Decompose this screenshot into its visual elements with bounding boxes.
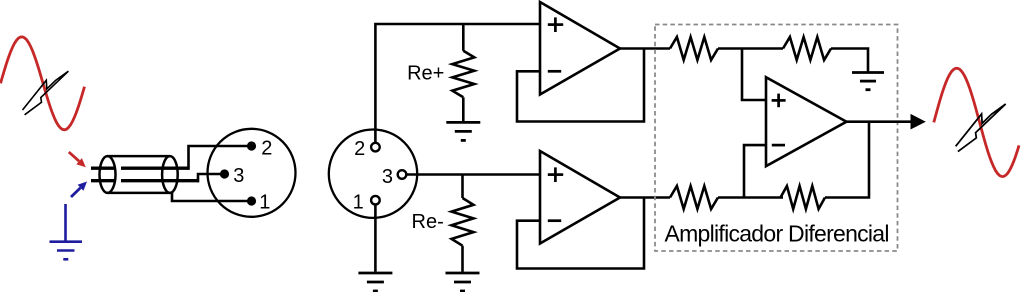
svg-text:3: 3 [382, 166, 393, 188]
svg-text:2: 2 [354, 138, 365, 160]
svg-text:Re-: Re- [412, 211, 444, 233]
svg-text:Amplificador Diferencial: Amplificador Diferencial [665, 220, 890, 246]
svg-text:1: 1 [353, 192, 364, 214]
svg-text:1: 1 [259, 192, 270, 214]
svg-text:3: 3 [233, 165, 244, 187]
svg-text:2: 2 [261, 138, 272, 160]
svg-text:Re+: Re+ [407, 63, 444, 85]
